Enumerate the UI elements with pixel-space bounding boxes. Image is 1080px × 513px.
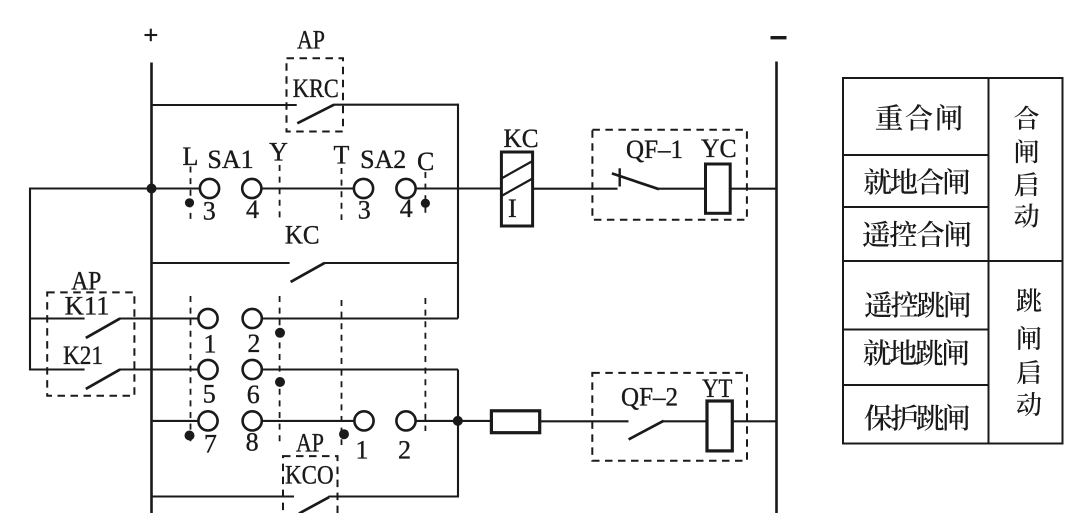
wire: KRC to node column [334, 104, 458, 106]
svg-text:2: 2 [247, 329, 260, 358]
table text: 重合闸 [876, 104, 902, 129]
table row line 1 [843, 154, 989, 156]
svg-text:QF–2: QF–2 [621, 383, 678, 412]
contact K21 [86, 370, 120, 389]
svg-text:KC: KC [504, 124, 539, 153]
terminal SA1-4 [242, 179, 261, 198]
table text: 跳闸启动 (vertical) [1017, 288, 1042, 312]
table outer frame [843, 78, 1063, 444]
breaker cabinet dashed box (QF-1 / YC) [592, 130, 747, 220]
wire: K11 to terminal 1 [119, 317, 209, 319]
position dot on L column [185, 198, 194, 207]
wire: lower node column [457, 370, 459, 497]
contact QF-2 blade [629, 421, 664, 440]
table text: 就地跳闸 [864, 339, 891, 365]
node: minus supply label [771, 36, 787, 39]
contact QF-1 blade [612, 173, 659, 189]
svg-text:SA2: SA2 [360, 145, 406, 174]
wire: left branch to K21 [30, 368, 85, 370]
svg-text:KC: KC [285, 221, 320, 250]
wire: YT to negative bus [732, 420, 776, 422]
svg-text:3: 3 [203, 197, 216, 226]
position dot on Y column (row 5-6) [275, 377, 285, 387]
svg-text:1: 1 [356, 436, 369, 465]
svg-text:SA1: SA1 [207, 145, 253, 174]
table vertical divider [988, 78, 990, 444]
wire: junction to SA1 terminal 3 [152, 187, 210, 189]
svg-text:6: 6 [247, 380, 260, 409]
coil YT (trip coil) [707, 401, 732, 451]
terminal 8 [243, 411, 262, 430]
svg-text:1: 1 [204, 330, 217, 359]
svg-text:K11: K11 [65, 291, 110, 320]
wire: terminal 2 to node column [252, 317, 458, 319]
table text: 遥控合闸 [863, 221, 890, 247]
table section divider [843, 260, 1063, 262]
table row line 2 [843, 206, 989, 208]
svg-text:KCO: KCO [285, 461, 334, 490]
breaker cabinet dashed box (QF-2 / YT) [592, 373, 747, 461]
resistor R [491, 411, 539, 433]
wire: left branch vertical to K11/K21 [29, 188, 31, 371]
wire: stub left from junction [30, 187, 152, 189]
wire: KC coil to QF-1 [533, 188, 618, 190]
wire: QF-2 to YT [663, 420, 707, 422]
svg-text:AP: AP [297, 26, 325, 55]
table text: 保护跳闸 [865, 404, 892, 430]
table text: 就地合闸 [864, 168, 891, 194]
position dot on C column [421, 199, 430, 208]
panel AP dashed box (KRC) [287, 58, 344, 131]
wire: SA2-4 to KC coil [406, 187, 502, 189]
terminal 7 [198, 411, 217, 430]
terminal 2 [243, 309, 262, 328]
svg-text:3: 3 [358, 196, 371, 225]
svg-text:4: 4 [400, 194, 413, 223]
wire: bus to KCO contact [152, 495, 295, 497]
position dot on T column (row 7-8) [339, 429, 349, 439]
terminal 2 (trip pair) [396, 411, 415, 430]
wire: KC contact to node column [324, 262, 458, 264]
contact KRC (normally open) [297, 105, 334, 124]
table text: 合闸启动 (vertical) [1014, 106, 1038, 130]
terminal SA2-3 [354, 179, 373, 198]
table text: 遥控跳闸 [865, 291, 892, 317]
terminal 1 [198, 309, 217, 328]
terminal 1 (trip pair) [354, 411, 373, 430]
switch column C dashed line (lower) [424, 298, 426, 431]
wire: SA1-4 to SA2-3 [252, 187, 364, 189]
svg-text:KRC: KRC [293, 74, 339, 103]
relay coil KC [501, 152, 532, 226]
table row line 5 [843, 384, 989, 386]
position dot on L column (row 7-8) [185, 431, 195, 441]
coil KC hatch lines [501, 161, 532, 179]
wire: terminal 2 to resistor [406, 420, 491, 422]
switch column Y dashed line [279, 165, 281, 220]
svg-text:AP: AP [296, 429, 324, 458]
switch column Y dashed line (lower) [279, 296, 281, 446]
svg-text:2: 2 [398, 436, 411, 465]
wire: left positive bus [150, 63, 153, 513]
switch column T dashed line (lower) [341, 300, 343, 445]
switch column L dashed line (lower) [190, 296, 192, 446]
contact K11 [86, 319, 120, 338]
terminal SA1-3 [200, 179, 219, 198]
position dot on Y column (row 1-2) [275, 328, 285, 338]
svg-text:YC: YC [701, 134, 737, 163]
wire: terminal 6 to node column [252, 368, 458, 370]
wire: left branch to K11 [30, 317, 85, 319]
table row line 4 [843, 329, 989, 331]
wire: bus to terminal 7 [153, 420, 209, 422]
svg-text:I: I [508, 194, 517, 223]
svg-text:C: C [417, 147, 434, 176]
wire: KCO to node column [329, 495, 460, 497]
panel AP dashed box (KCO) [283, 456, 338, 513]
svg-text:YT: YT [702, 374, 732, 403]
svg-text:5: 5 [203, 380, 216, 409]
coil YC (closing coil) [706, 164, 731, 213]
svg-text:L: L [183, 142, 199, 171]
svg-text:7: 7 [204, 429, 217, 458]
switch column C dashed line [424, 172, 426, 218]
wire: bus to KRC contact [153, 104, 297, 106]
wire: right node column (closing circuit) [457, 104, 459, 319]
contact KCO blade [299, 497, 329, 513]
wire: resistor to QF-2 [540, 420, 629, 422]
contact KC (normally open) [291, 263, 325, 282]
wire: terminal 8 to terminal 1 (trip pair) [252, 420, 364, 422]
wire: YC to negative bus [730, 188, 776, 190]
wire: K21 to terminal 5 [119, 368, 209, 370]
wire: right negative bus [775, 62, 778, 513]
node: trip circuit junction [453, 416, 463, 426]
svg-text:QF–1: QF–1 [626, 135, 683, 164]
terminal 5 [198, 360, 217, 379]
switch column L dashed line [190, 167, 192, 220]
panel AP dashed box (K11/K21) [47, 292, 134, 395]
node: junction on positive bus [147, 184, 157, 194]
svg-text:Y: Y [269, 138, 288, 167]
terminal SA2-4 [396, 179, 415, 198]
svg-text:8: 8 [246, 428, 259, 457]
terminal 6 [243, 360, 262, 379]
contact QF-1 tick [619, 168, 621, 186]
wire: bus to KC contact [153, 262, 290, 264]
switch column T dashed line [341, 168, 343, 220]
svg-text:K21: K21 [63, 341, 103, 370]
svg-text:4: 4 [246, 195, 259, 224]
wire: QF-1 to YC [659, 188, 706, 190]
svg-text:T: T [333, 141, 349, 170]
node: plus supply label [145, 29, 158, 42]
